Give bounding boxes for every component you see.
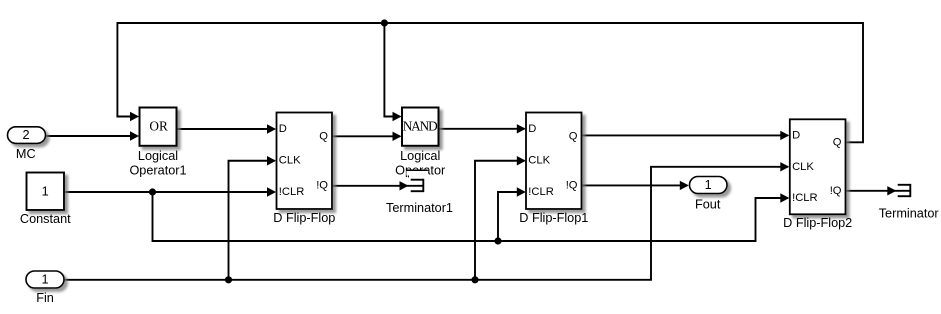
arrowhead into DFF1 D	[517, 124, 526, 133]
svg-text:D: D	[279, 123, 287, 135]
logical operator NAND block	[402, 108, 439, 146]
arrowhead into OR in2	[130, 131, 139, 140]
label Logical Operator	[395, 149, 446, 178]
arrowhead into Terminator	[887, 186, 896, 195]
terminator Terminator1	[411, 179, 424, 192]
svg-text:Operator1: Operator1	[129, 164, 186, 178]
logical operator OR block	[140, 108, 177, 146]
svg-text:MC: MC	[16, 147, 36, 161]
arrowhead into NAND in1	[393, 112, 402, 121]
svg-text:!Q: !Q	[830, 185, 842, 197]
svg-text:1: 1	[705, 178, 712, 192]
svg-text:Q: Q	[319, 131, 328, 143]
D flip-flop block D Flip-Flop1	[526, 113, 582, 210]
wire DFF1 Q to DFF2 D	[582, 134, 788, 136]
svg-text:D: D	[528, 123, 536, 135]
D flip-flop block D Flip-Flop	[277, 113, 333, 210]
svg-text:Fout: Fout	[695, 198, 721, 212]
constant block Constant	[27, 173, 65, 211]
arrowhead into DFF1 CLK	[517, 156, 526, 165]
wire DFF2 !Q to Terminator	[846, 190, 911, 192]
svg-text:1: 1	[41, 272, 48, 286]
arrowhead into Fout	[680, 181, 689, 190]
outport Fout	[690, 177, 728, 194]
svg-text:Logical: Logical	[400, 149, 440, 163]
wire DFF !Q to Terminator1	[332, 185, 423, 187]
arrowhead into OR in1	[130, 112, 139, 121]
arrowhead into DFF CLK	[267, 156, 276, 165]
arrowhead into NAND in2	[393, 132, 402, 141]
junction dot Constant/DFF1 !CLR riser	[494, 237, 501, 244]
svg-text:Fin: Fin	[36, 291, 54, 305]
wire MC to OR in2	[46, 135, 138, 137]
junction dot Fin/DFF1 CLK riser	[471, 276, 478, 283]
junction dot on top wire	[381, 19, 388, 26]
terminator Terminator	[898, 184, 911, 197]
arrowhead into DFF !CLR	[267, 187, 276, 196]
wire net: Fin to CLK of all flip-flops	[64, 161, 788, 280]
arrowhead into DFF D	[267, 124, 276, 133]
svg-text:!CLR: !CLR	[528, 186, 554, 198]
svg-text:1: 1	[42, 184, 49, 198]
svg-text:!Q: !Q	[566, 180, 578, 192]
svg-text:D Flip-Flop1: D Flip-Flop1	[519, 211, 588, 225]
junction dot Constant wire branch	[149, 188, 156, 195]
arrowhead into DFF1 !CLR	[517, 187, 526, 196]
svg-text:D Flip-Flop2: D Flip-Flop2	[783, 216, 852, 230]
svg-text:Terminator: Terminator	[879, 207, 940, 221]
wire net: DFF2 Q feedback to OR and NAND (top wire)	[117, 23, 863, 142]
svg-text:!CLR: !CLR	[279, 186, 305, 198]
svg-text:Logical: Logical	[138, 149, 178, 163]
svg-text:Q: Q	[833, 137, 842, 149]
arrowhead into Terminator1	[400, 181, 409, 190]
wire DFF Q to NAND in2	[332, 135, 400, 137]
svg-text:Constant: Constant	[20, 212, 71, 226]
svg-text:D: D	[792, 129, 800, 141]
wire NAND output to DFF1 D	[439, 128, 525, 130]
svg-text:NAND: NAND	[403, 118, 438, 133]
arrowhead into DFF2 !CLR	[780, 193, 789, 202]
svg-text:!CLR: !CLR	[792, 192, 818, 204]
svg-text:!Q: !Q	[316, 180, 328, 192]
svg-text:CLK: CLK	[279, 155, 301, 167]
wire DFF1 !Q to Fout	[582, 184, 688, 186]
arrowhead into DFF2 CLK	[780, 162, 789, 171]
svg-text:Terminator1: Terminator1	[386, 201, 453, 215]
inport MC	[8, 127, 46, 144]
wire net: Constant to !CLR of all flip-flops	[64, 192, 788, 241]
svg-text:OR: OR	[149, 118, 168, 133]
svg-text:Q: Q	[569, 131, 578, 143]
wire OR output to DFF D	[177, 128, 275, 130]
svg-text:CLK: CLK	[528, 155, 550, 167]
D flip-flop block D Flip-Flop2	[790, 119, 846, 214]
label Logical Operator1	[129, 149, 186, 178]
arrowhead into DFF2 D	[780, 131, 789, 140]
svg-text:CLK: CLK	[792, 161, 814, 173]
svg-text:D Flip-Flop: D Flip-Flop	[273, 211, 335, 225]
inport Fin	[26, 271, 64, 288]
svg-text:2: 2	[22, 128, 29, 142]
junction dot Fin/DFF CLK riser	[225, 276, 232, 283]
